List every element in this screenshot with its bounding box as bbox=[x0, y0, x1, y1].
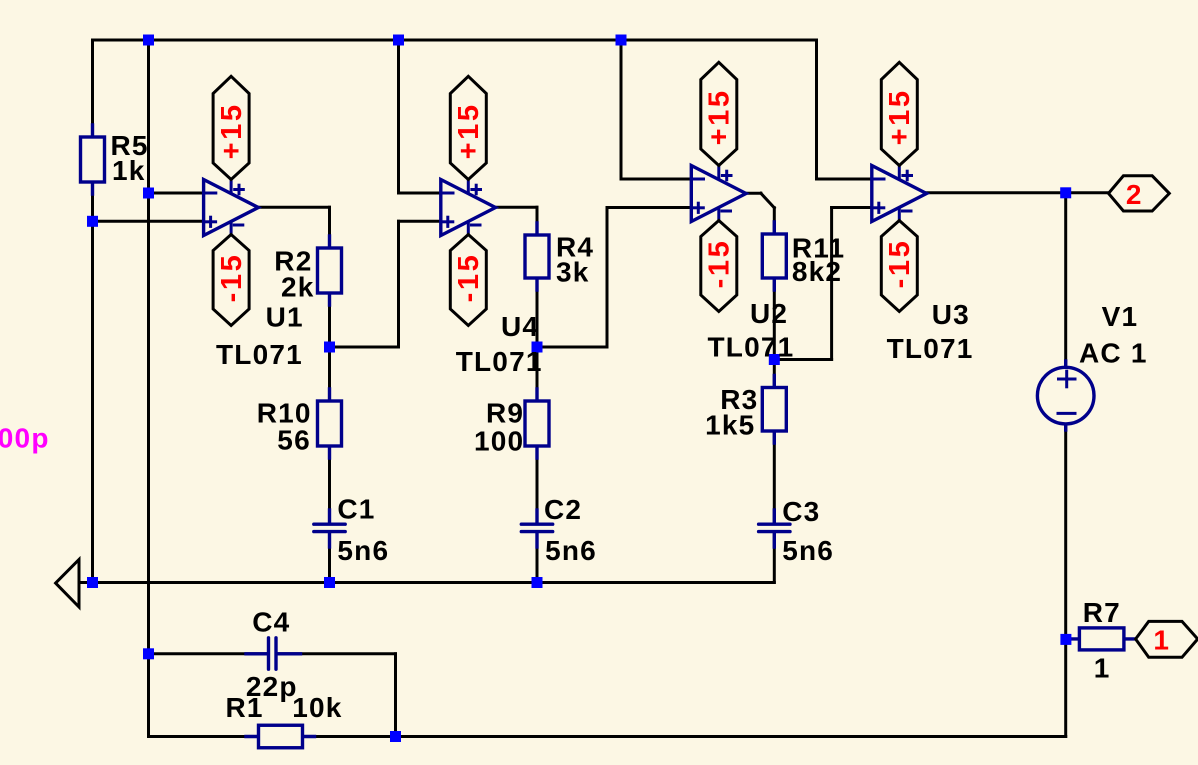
resistor R7 bbox=[1067, 628, 1136, 650]
junction node R4-R9 bbox=[532, 342, 543, 353]
svg-text:+15: +15 bbox=[216, 102, 248, 159]
capacitor C4 bbox=[246, 638, 301, 669]
svg-text:TL071: TL071 bbox=[708, 332, 795, 363]
wire into U3 inverting input bbox=[817, 178, 872, 181]
svg-text:1k5: 1k5 bbox=[705, 409, 755, 440]
svg-text:R9: R9 bbox=[486, 398, 524, 429]
junction C4/R1 right bbox=[390, 731, 401, 742]
svg-text:+15: +15 bbox=[453, 102, 485, 159]
wire x=607 up to U2 + bbox=[606, 208, 609, 348]
svg-text:1: 1 bbox=[1153, 624, 1170, 655]
wire x=148.5 down to bottom rail bbox=[147, 654, 150, 737]
svg-text:TL071: TL071 bbox=[216, 339, 303, 370]
svg-text:10k: 10k bbox=[292, 692, 342, 723]
svg-text:100: 100 bbox=[474, 426, 524, 457]
junction U1 + input bbox=[87, 216, 98, 227]
svg-text:C1: C1 bbox=[337, 494, 375, 525]
wire top rail bbox=[93, 39, 817, 42]
svg-text:AC 1: AC 1 bbox=[1079, 338, 1148, 369]
junction node R11-R3 bbox=[769, 354, 780, 365]
wire R11/R3/C3 chain upper bbox=[773, 208, 776, 524]
wire C4 branch right bbox=[276, 652, 395, 655]
junction top rail / U2 - bbox=[616, 35, 627, 46]
wire U1 output to R2 bbox=[258, 206, 329, 209]
capacitor C2 bbox=[521, 510, 552, 547]
op-amp U3 bbox=[872, 166, 927, 222]
wire C4 branch down bbox=[394, 654, 397, 737]
wire C1 to bus bbox=[328, 532, 331, 583]
power symbol -15 (U4) bbox=[450, 235, 486, 326]
junction C4 branch bbox=[143, 648, 154, 659]
svg-text:C3: C3 bbox=[782, 496, 820, 527]
junction bus left bbox=[87, 577, 98, 588]
power symbol -15 (U2) bbox=[701, 221, 737, 312]
wire U2 output bbox=[746, 192, 761, 195]
resistor R5 bbox=[81, 125, 105, 194]
wire node R2-R10 to right bbox=[330, 346, 399, 349]
svg-text:TL071: TL071 bbox=[887, 333, 974, 364]
wire U3 output to port 2 bbox=[927, 191, 1109, 194]
power symbol +15 (U4) bbox=[450, 76, 486, 179]
svg-text:8k2: 8k2 bbox=[792, 256, 842, 287]
wire node R11-R3 to right bbox=[774, 358, 831, 361]
resistor R2 bbox=[318, 236, 342, 305]
wire U1 inverting input bbox=[149, 192, 204, 195]
wire into U4 inverting input bbox=[399, 192, 441, 195]
svg-text:+15: +15 bbox=[884, 88, 916, 145]
power symbol +15 (U1) bbox=[213, 76, 249, 179]
junction top rail / U4 - bbox=[393, 35, 404, 46]
junction node R2-R10 bbox=[324, 342, 335, 353]
junction top rail / U1 - bbox=[143, 35, 154, 46]
wire into U4 non-inverting input bbox=[399, 220, 441, 223]
op-amp U4 bbox=[441, 180, 496, 236]
svg-text:TL071: TL071 bbox=[456, 346, 543, 377]
svg-text:5n6: 5n6 bbox=[782, 535, 834, 566]
svg-text:C2: C2 bbox=[544, 494, 582, 525]
resistor R10 bbox=[318, 389, 342, 458]
wire C3 to bus bbox=[773, 532, 776, 582]
wire x=398.5 up to U4 + bbox=[397, 221, 400, 347]
wire top rail end down to U3 - bbox=[815, 40, 818, 179]
port 2 bbox=[1109, 176, 1170, 211]
wire V1 bottom to bottom rail bbox=[1064, 424, 1067, 737]
power symbol +15 (U2) bbox=[701, 62, 737, 165]
svg-text:U3: U3 bbox=[932, 299, 970, 330]
wire U4 output to R4 bbox=[495, 206, 537, 209]
wire top rail down to U2 - bbox=[620, 40, 623, 179]
svg-text:V1: V1 bbox=[1102, 301, 1139, 332]
junction U1 - input bbox=[143, 188, 154, 199]
svg-text:56: 56 bbox=[277, 425, 311, 456]
svg-text:5n6: 5n6 bbox=[337, 535, 389, 566]
svg-text:U2: U2 bbox=[750, 298, 788, 329]
capacitor C3 bbox=[759, 510, 790, 547]
wire into U3 non-inverting input bbox=[832, 206, 872, 209]
wire left rail x=92.5 bbox=[91, 40, 94, 583]
svg-text:100p: 100p bbox=[0, 423, 50, 454]
svg-text:-15: -15 bbox=[884, 239, 916, 289]
power symbol +15 (U3) bbox=[881, 62, 917, 165]
wire C2 to bus bbox=[536, 532, 539, 583]
svg-text:-15: -15 bbox=[453, 253, 485, 303]
resistor R9 bbox=[525, 389, 549, 458]
junction node 2 / V1 bbox=[1060, 187, 1071, 198]
resistor R1 bbox=[246, 725, 315, 748]
wire x=831.6 up to U3 + bbox=[830, 208, 833, 360]
svg-text:1k: 1k bbox=[112, 155, 146, 186]
wire R4/R9/C2 chain upper bbox=[536, 207, 539, 524]
svg-text:3k: 3k bbox=[556, 257, 590, 288]
wire into U2 non-inverting input bbox=[607, 206, 691, 209]
junction bus C1 bbox=[324, 577, 335, 588]
svg-text:2: 2 bbox=[1126, 179, 1143, 210]
wire U1 non-inverting input bbox=[93, 220, 204, 223]
wire x=148.5 vertical bbox=[147, 40, 150, 654]
AC source V1 bbox=[1037, 361, 1094, 430]
power symbol -15 (U3) bbox=[881, 221, 917, 312]
svg-text:5n6: 5n6 bbox=[545, 535, 597, 566]
wire R2/R10/C1 chain upper bbox=[328, 207, 331, 524]
svg-text:U4: U4 bbox=[501, 311, 539, 342]
wire ground bus bbox=[79, 581, 774, 584]
power symbol -15 (U1) bbox=[213, 235, 249, 326]
svg-text:R7: R7 bbox=[1083, 597, 1121, 628]
svg-text:-15: -15 bbox=[216, 253, 248, 303]
svg-text:2k: 2k bbox=[281, 271, 315, 302]
wire C4 branch left bbox=[149, 652, 269, 655]
wire top rail down to U4 - bbox=[397, 40, 400, 193]
op-amp U2 bbox=[691, 166, 746, 222]
svg-text:1: 1 bbox=[1094, 653, 1111, 684]
svg-text:+15: +15 bbox=[704, 88, 736, 145]
svg-text:U1: U1 bbox=[266, 301, 304, 332]
wire U2 output diagonal bbox=[761, 193, 774, 208]
op-amp U1 bbox=[204, 180, 259, 236]
resistor R3 bbox=[762, 376, 786, 444]
resistor R4 bbox=[525, 223, 549, 290]
wire node R4-R9 to right bbox=[537, 346, 607, 349]
wire bottom rail bbox=[149, 735, 1066, 738]
svg-text:C4: C4 bbox=[252, 607, 290, 638]
wire into U2 inverting input bbox=[621, 178, 691, 181]
svg-text:-15: -15 bbox=[704, 239, 736, 289]
capacitor C1 bbox=[314, 510, 345, 547]
svg-text:R1: R1 bbox=[226, 692, 264, 723]
ground arrow port bbox=[56, 560, 79, 608]
resistor R11 bbox=[762, 222, 786, 290]
junction bus C2 bbox=[532, 577, 543, 588]
wire node 2 down to V1 bbox=[1064, 193, 1067, 368]
port 1 bbox=[1136, 621, 1198, 657]
junction V1 / R7 bbox=[1060, 634, 1071, 645]
